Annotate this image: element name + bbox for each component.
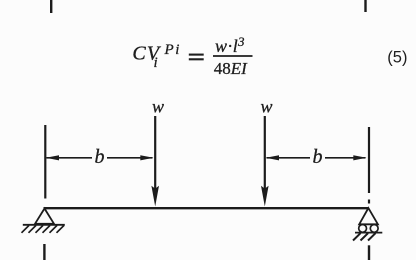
dimension arrowhead left-left [46, 155, 59, 160]
svg-text:b: b [95, 146, 105, 168]
dimension line left segment a [47, 157, 93, 159]
load arrow right shaft [264, 116, 266, 189]
dashed line remnant top-right [364, 0, 366, 12]
dimension arrowhead left-right [140, 155, 153, 160]
dimension line right segment b [325, 157, 366, 159]
right boundary line small dash [368, 200, 370, 204]
pin support triangle left [35, 209, 54, 224]
load arrow right head [261, 186, 269, 207]
dimension arrowhead right-right [353, 155, 366, 160]
svg-text:48EI: 48EI [214, 59, 248, 78]
equals sign upper bar [189, 54, 204, 56]
beam [44, 207, 369, 209]
svg-text:(5): (5) [387, 48, 407, 66]
dashed line remnant bottom-left [43, 244, 45, 260]
roller support triangle right [359, 208, 378, 224]
left boundary line [44, 125, 46, 199]
roller left circle [359, 225, 367, 233]
pin support hatching left [22, 225, 65, 232]
equals sign lower bar [189, 58, 204, 60]
svg-text:w: w [261, 97, 273, 117]
svg-text:b: b [313, 146, 323, 168]
dashed line remnant bottom-right [368, 245, 370, 260]
dashed line remnant top-left [50, 0, 52, 13]
dimension line left segment b [107, 157, 153, 159]
svg-text:w: w [152, 97, 164, 117]
roller ground line [355, 232, 382, 234]
svg-text:Pi: Pi [164, 42, 180, 58]
dimension arrowhead right-left [266, 155, 279, 160]
fraction bar [213, 55, 253, 57]
svg-text:i: i [154, 55, 158, 71]
load arrow left head [151, 186, 159, 207]
roller right circle [370, 225, 378, 233]
load arrow left shaft [154, 116, 156, 189]
dimension line right segment a [267, 157, 311, 159]
pin support ground line left [23, 224, 65, 226]
roller hatching [353, 233, 376, 240]
right boundary line [368, 127, 370, 193]
